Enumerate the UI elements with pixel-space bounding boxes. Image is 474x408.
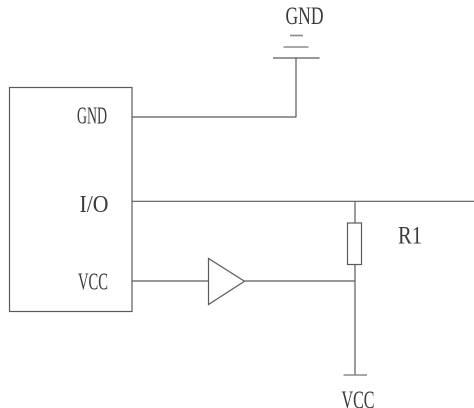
svg-text:VCC: VCC [78, 270, 108, 296]
svg-text:GND: GND [286, 3, 324, 30]
svg-text:VCC: VCC [342, 387, 375, 408]
svg-text:I/O: I/O [80, 192, 109, 218]
svg-text:GND: GND [77, 104, 107, 130]
svg-text:R1: R1 [398, 223, 422, 250]
